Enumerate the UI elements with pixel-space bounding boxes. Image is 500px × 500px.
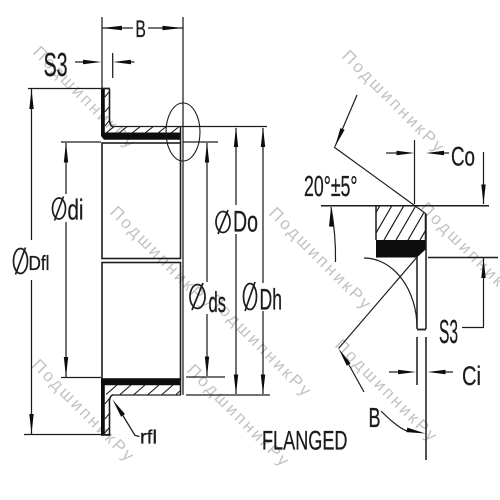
svg-text:rfl: rfl bbox=[140, 428, 157, 449]
chamfer leader line bbox=[335, 95, 357, 147]
angle dimension arrowhead bbox=[329, 207, 334, 227]
svg-text:Do: Do bbox=[233, 206, 258, 239]
svg-text:Dh: Dh bbox=[260, 284, 283, 317]
dimension odi: dim line bbox=[65, 143, 67, 377]
arrow B right bbox=[163, 26, 183, 30]
svg-text:FLANGED: FLANGED bbox=[262, 426, 348, 456]
arrow ods bottom bbox=[205, 357, 209, 377]
bottom wall hatch band bbox=[106, 385, 187, 395]
angle dimension arc bbox=[331, 207, 336, 262]
outer diameter bottom line with extension bbox=[112, 394, 270, 396]
arrow oDo top bbox=[234, 127, 238, 147]
dimension ods: bottom extension line bbox=[186, 376, 225, 378]
dimension oDfl: dim line bbox=[31, 89, 33, 434]
arrow oDfl bottom bbox=[29, 414, 33, 434]
flange bottom right face and fillet bbox=[109, 395, 113, 435]
top wall black liner bar bbox=[101, 89, 181, 140]
flange inner face line bbox=[416, 258, 418, 386]
detail black liner band bbox=[376, 240, 426, 258]
dimension B top: right extension line (long) bbox=[182, 17, 184, 395]
label ods bbox=[190, 283, 205, 310]
arrow rfl leader bbox=[113, 400, 126, 417]
chamfer 20 deg line bbox=[334, 147, 426, 214]
arrow B left bbox=[102, 26, 122, 30]
dimension oDfl: bottom extension line bbox=[24, 434, 110, 436]
svg-text:S3: S3 bbox=[439, 313, 458, 350]
svg-text:ПодшипникРу: ПодшипникРу bbox=[28, 355, 139, 466]
dimension Co: arrows bbox=[397, 151, 415, 155]
dimension S3 left: tails bbox=[75, 61, 135, 63]
arrow S3 left bbox=[83, 60, 102, 64]
top wall hatch band bbox=[106, 126, 180, 133]
dimension Ci: tails bbox=[389, 371, 453, 373]
dimension B right: curved leader to face line bbox=[381, 411, 409, 432]
rfl leader line bbox=[122, 414, 140, 437]
dimension oDh: dim line bbox=[262, 128, 264, 394]
dimension S3 right: bottom arrow line and jog bbox=[462, 258, 484, 328]
bottom wall black liner bar bbox=[101, 379, 181, 436]
dimension Ci: arrows bbox=[398, 370, 416, 374]
label oDo bbox=[216, 210, 230, 234]
dimension odi: bottom extension line bbox=[61, 377, 101, 379]
svg-text:Dfl: Dfl bbox=[29, 253, 50, 275]
dimension B top: left extension line bbox=[101, 17, 103, 88]
arrow oDh top bbox=[261, 127, 265, 147]
bore line extension right bbox=[428, 257, 498, 259]
top face line bbox=[321, 205, 489, 207]
svg-text:S3: S3 bbox=[44, 46, 68, 83]
dimension Co: extension line bbox=[414, 140, 416, 204]
dimension oDfl: top extension line bbox=[28, 88, 110, 90]
svg-text:B: B bbox=[135, 16, 146, 43]
dimension B top: dim line bbox=[102, 27, 183, 29]
arrows left view bbox=[29, 26, 265, 434]
label oDh bbox=[244, 282, 257, 311]
top flange wall hatch bbox=[105, 92, 110, 127]
dimension S3 left: extension line bbox=[112, 53, 114, 78]
arrow odi top bbox=[64, 143, 68, 163]
bore rectangle upper bbox=[102, 143, 181, 259]
dimension B right: leader line to label bbox=[349, 364, 365, 392]
detail steel hatch lines bbox=[360, 206, 440, 240]
dimension oDo: dim line bbox=[235, 128, 237, 394]
dimension B right: reference line bbox=[339, 257, 418, 349]
arrow S3 right bbox=[113, 60, 131, 64]
arrow oDo bottom bbox=[234, 375, 238, 395]
label oDfl bbox=[14, 248, 28, 275]
svg-text:Co: Co bbox=[451, 142, 475, 172]
dimension odi: top extension line bbox=[61, 141, 101, 143]
chamfer leader arrowhead bbox=[335, 128, 345, 146]
flange outer face / B extension line bbox=[425, 214, 427, 460]
outer diameter top line bbox=[112, 126, 267, 128]
detail steel hatch region outline bbox=[376, 206, 426, 240]
bore rectangle lower bbox=[102, 263, 181, 380]
fillet radius arc (enlarged) bbox=[364, 258, 417, 328]
dimension B right: leader arrowhead bbox=[339, 349, 351, 366]
svg-text:B: B bbox=[369, 402, 381, 433]
svg-text:di: di bbox=[68, 195, 84, 227]
svg-text:Ci: Ci bbox=[462, 361, 481, 391]
flange top face bbox=[101, 88, 110, 90]
sleeve right end face bbox=[180, 127, 182, 396]
flange top right face and fillet bbox=[110, 89, 114, 127]
svg-text:ds: ds bbox=[209, 287, 227, 319]
label odi bbox=[53, 197, 66, 221]
detail callout ellipse bbox=[166, 103, 200, 161]
bottom flange wall hatch bbox=[105, 399, 110, 434]
arrow odi bottom bbox=[64, 357, 68, 377]
arrow oDh bottom bbox=[261, 375, 265, 395]
svg-text:ПодшипникРу: ПодшипникРу bbox=[338, 46, 449, 157]
dimension S3 right: top arrow line bbox=[483, 152, 485, 204]
dimension Co: left tail bbox=[386, 152, 398, 154]
arrow ods top bbox=[205, 143, 209, 163]
svg-text:ПодшипникРу: ПодшипникРу bbox=[416, 198, 500, 309]
dimension Co: right tail bbox=[443, 152, 449, 154]
flange bottom face bbox=[101, 434, 111, 436]
arrow oDfl top bbox=[29, 89, 33, 109]
dimension ods: dim line bbox=[206, 143, 208, 376]
flange end cap bbox=[417, 329, 426, 331]
dimension ods: top extension line bbox=[183, 141, 218, 143]
svg-text:20°±5°: 20°±5° bbox=[304, 171, 358, 203]
